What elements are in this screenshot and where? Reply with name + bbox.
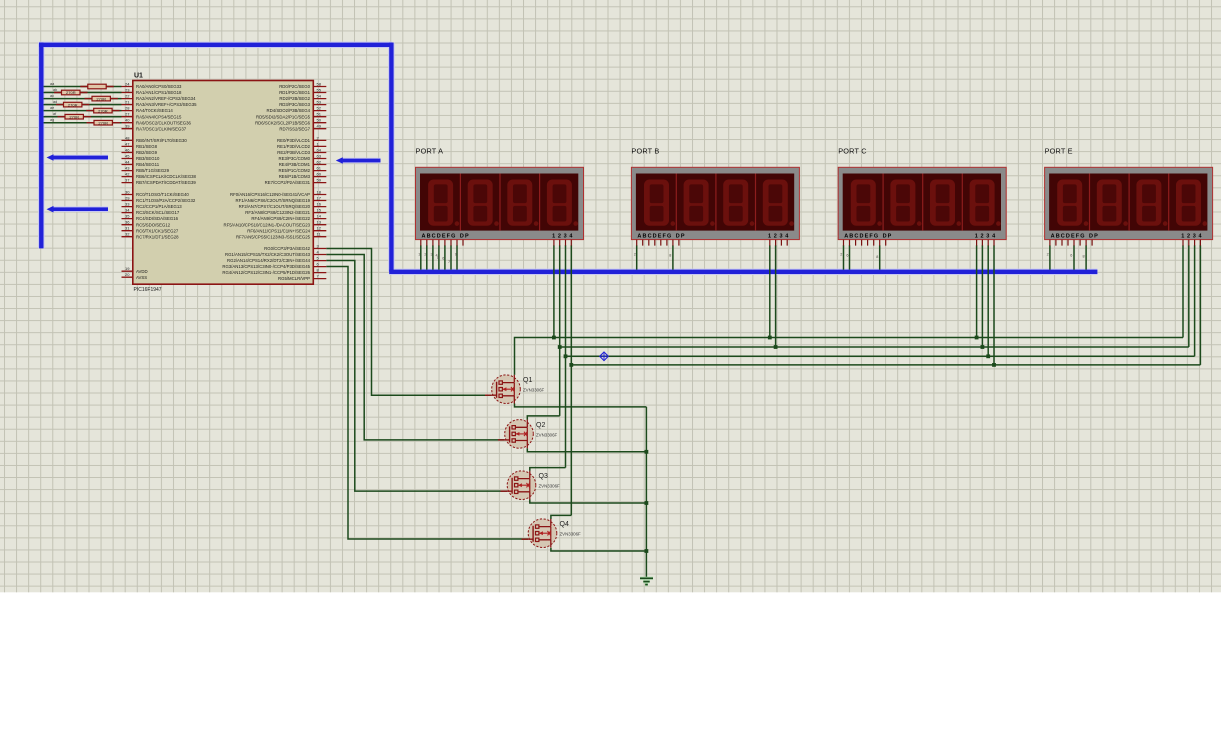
transistor Q3 ZVN3306F (501, 471, 561, 500)
svg-text:RF3/AN8/CPS8/C123IN2-/SEG21: RF3/AN8/CPS8/C123IN2-/SEG21 (245, 210, 310, 215)
svg-text:RE4/P3B/COM1: RE4/P3B/COM1 (279, 162, 311, 167)
transistor Q4 ZVN3306F (522, 519, 582, 548)
svg-text:13: 13 (317, 220, 322, 225)
resistor R7 270R (87, 120, 120, 125)
svg-text:32: 32 (125, 232, 130, 237)
bus entry stub left lower with arrow (47, 206, 109, 213)
svg-text:RD1/P2C/SEG1: RD1/P2C/SEG1 (279, 90, 310, 95)
svg-text:20: 20 (125, 272, 130, 277)
svg-text:RC3/SCK/SCL/SEG17: RC3/SCK/SCL/SEG17 (136, 210, 180, 215)
U1 left pin stubs (122, 87, 133, 278)
net labels aa-ag (50, 82, 57, 122)
junction dot PORT A digit3 / rail3 (564, 354, 568, 358)
svg-text:21: 21 (125, 100, 130, 105)
svg-text:RF6/AN11/CPS11/C1IN+/SEG24: RF6/AN11/CPS11/C1IN+/SEG24 (247, 228, 310, 233)
svg-text:ZVN3306F: ZVN3306F (560, 532, 582, 537)
junction dot PORT B digit1 / rail1 (768, 336, 772, 340)
svg-text:RA1/AN1/CPS1/SEG18: RA1/AN1/CPS1/SEG18 (136, 90, 182, 95)
svg-text:RC7/RX1/DT1/SEG28: RC7/RX1/DT1/SEG28 (136, 234, 179, 239)
svg-text:270R: 270R (66, 90, 76, 95)
svg-text:RA6/OSC2/CLKOUT/SEG36: RA6/OSC2/CLKOUT/SEG36 (136, 120, 192, 125)
svg-text:PORT A: PORT A (416, 147, 444, 156)
svg-text:64: 64 (317, 148, 322, 153)
svg-text:33: 33 (125, 202, 130, 207)
svg-text:6: 6 (1070, 254, 1072, 258)
svg-text:31: 31 (125, 226, 130, 231)
svg-text:59: 59 (317, 178, 322, 183)
svg-text:3: 3 (431, 253, 433, 257)
svg-text:RG1/AN15/CPS15/TX2/CK2/C3OUT/S: RG1/AN15/CPS15/TX2/CK2/C3OUT/SEG43 (225, 252, 311, 257)
rail 3: digit-3 rail (566, 355, 1195, 357)
svg-text:RC6/TX1/CK1/SEG27: RC6/TX1/CK1/SEG27 (136, 228, 179, 233)
wire ad: bus to R4 to pin RA3 (44, 104, 122, 106)
svg-text:29: 29 (125, 196, 130, 201)
svg-text:7: 7 (448, 260, 450, 264)
wire ab: bus to R2 to pin RA1 (44, 92, 122, 94)
svg-text:RF2/AN7/CPS7/C1OUT/SRQ/SEG20: RF2/AN7/CPS7/C1OUT/SRQ/SEG20 (239, 204, 311, 209)
svg-text:8: 8 (876, 255, 878, 259)
svg-text:39: 39 (125, 124, 130, 129)
svg-text:18: 18 (317, 190, 322, 195)
svg-text:U1: U1 (134, 73, 143, 80)
wire Q4 source to ground rail (551, 548, 647, 551)
svg-text:52: 52 (317, 106, 322, 111)
svg-text:45: 45 (125, 154, 130, 159)
svg-text:6: 6 (442, 257, 444, 261)
display PORT C 7SEG-MPX4 (838, 147, 1006, 246)
junction dot PORT C digit1 / rail1 (975, 336, 979, 340)
wire PORT C digit 4 down to rail 4 (993, 245, 995, 365)
wire PORT A segment F to bus (450, 245, 452, 269)
wire PORT A segment A to bus (420, 245, 422, 269)
svg-text:1: 1 (418, 253, 420, 257)
svg-text:RC5/SDO/SEG12: RC5/SDO/SEG12 (136, 222, 171, 227)
junction dot PORT A digit4 / rail4 (569, 363, 573, 367)
display PORT B 7SEG-MPX4 (631, 147, 799, 246)
junction dot PORT C digit3 / rail3 (986, 354, 990, 358)
svg-text:40: 40 (125, 118, 130, 123)
svg-text:RF0/AN16/CPS16/C12IN0-/SEG41/V: RF0/AN16/CPS16/C12IN0-/SEG41/VCAP (230, 192, 310, 197)
node marker (blue diamond) on rail 3 (600, 352, 609, 361)
svg-text:58: 58 (317, 82, 322, 87)
svg-text:ag: ag (50, 118, 54, 122)
display PORT E 7SEG-MPX4 (1045, 147, 1213, 246)
svg-text:14: 14 (317, 214, 322, 219)
U1 right pin numbers (317, 82, 322, 279)
display pin number labels (418, 253, 1084, 264)
svg-text:30: 30 (125, 190, 130, 195)
wire Q3 drain elbow (530, 468, 566, 471)
op-amp U1 PIC16F1947 microcontroller body (133, 73, 313, 294)
wire RG2 pin5 to Q3 gate (326, 261, 507, 492)
svg-text:RC1/T1OSI/P2A/CCP2/SEG32: RC1/T1OSI/P2A/CCP2/SEG32 (136, 198, 196, 203)
svg-text:RC0/T1OSO/T1CKI/SEG40: RC0/T1OSO/T1CKI/SEG40 (136, 192, 189, 197)
wire Q3 source to ground rail (530, 500, 647, 504)
ground (640, 578, 653, 584)
svg-text:8: 8 (1083, 255, 1085, 259)
svg-text:RA3/AN3/VREF+/CPS3/SEG35: RA3/AN3/VREF+/CPS3/SEG35 (136, 102, 197, 107)
svg-text:46: 46 (125, 148, 130, 153)
svg-text:270R: 270R (68, 102, 78, 107)
svg-text:RB5/T1G/SEG29: RB5/T1G/SEG29 (136, 168, 170, 173)
svg-text:270R: 270R (69, 114, 79, 119)
svg-text:RA5/AN4/CPS4/SEG15: RA5/AN4/CPS4/SEG15 (136, 114, 182, 119)
svg-text:63: 63 (317, 154, 322, 159)
svg-text:RD0/P2C/SEG0: RD0/P2C/SEG0 (279, 84, 310, 89)
svg-text:RC2/CCP1/P1A/SEG13: RC2/CCP1/P1A/SEG13 (136, 204, 182, 209)
wire PORT A segment B to bus (426, 245, 428, 269)
bus entry stub right of chip with arrow (336, 157, 381, 164)
svg-text:2: 2 (424, 253, 426, 257)
svg-text:47: 47 (125, 141, 130, 146)
wire af: bus to R6 to pin RA5 (44, 116, 122, 118)
wire PORT A digit 2 down through rail 2 to Q2 drain elbow (559, 245, 561, 416)
svg-text:RF1/AN6/CPS6/C2OUT/SRNQ/SEG19: RF1/AN6/CPS6/C2OUT/SRNQ/SEG19 (235, 198, 310, 203)
bus: top horizontal segment (39, 43, 392, 47)
svg-text:RB0/INT/SRI/FLT0/SEG30: RB0/INT/SRI/FLT0/SEG30 (136, 138, 187, 143)
junction dot PORT C digit4 / rail4 (992, 363, 996, 367)
wire PORT A segment C to bus (432, 245, 434, 269)
svg-text:55: 55 (317, 88, 322, 93)
svg-text:50: 50 (317, 118, 322, 123)
wire PORT E segment G to bus (1085, 245, 1087, 269)
wire PORT B digit 1 down to rail 1 (769, 245, 771, 337)
svg-text:24: 24 (125, 82, 130, 87)
junction dot Q4 source / ground rail (645, 549, 649, 553)
svg-text:RG3/AN13/CPS13/C3IN0-/CCP4/P3D: RG3/AN13/CPS13/C3IN0-/CCP4/P3D/SEG45 (222, 264, 310, 269)
svg-text:ab: ab (53, 88, 57, 92)
svg-text:RA0/AN0/CPS0/SEG33: RA0/AN0/CPS0/SEG33 (136, 84, 182, 89)
junction dot PORT B digit2 / rail2 (774, 345, 778, 349)
junction dot PORT A digit1 / rail1 (552, 336, 556, 340)
svg-text:34: 34 (125, 208, 130, 213)
svg-text:RE6/P1B/COM3: RE6/P1B/COM3 (279, 174, 311, 179)
svg-text:270R: 270R (98, 108, 108, 113)
svg-text:23: 23 (125, 88, 130, 93)
wire Q2 drain elbow (527, 416, 559, 420)
svg-text:9: 9 (455, 253, 457, 257)
wire PORT B segment G to bus (672, 245, 674, 269)
svg-text:RE5/P1C/COM2: RE5/P1C/COM2 (278, 168, 310, 173)
svg-text:28: 28 (125, 106, 130, 111)
svg-text:RD5/SDI2/SDA2/P1C/SEG5: RD5/SDI2/SDA2/P1C/SEG5 (256, 114, 311, 119)
svg-text:RA4/T0CKI/SEG14: RA4/T0CKI/SEG14 (136, 108, 173, 113)
svg-text:RG0/CCP3/P3A/SEG42: RG0/CCP3/P3A/SEG42 (264, 246, 310, 251)
wire PORT E digit 3 down to rail 3 end (1194, 245, 1196, 356)
svg-text:RE3/P3C/COM0: RE3/P3C/COM0 (278, 156, 310, 161)
wire Q2 source to ground rail (527, 448, 646, 452)
bus: right vertical segment (389, 43, 393, 272)
junction dot Q2 source / ground rail (645, 450, 649, 454)
junction dot PORT A digit2 / rail2 (558, 345, 562, 349)
svg-text:ad: ad (53, 100, 57, 104)
svg-text:48: 48 (125, 135, 130, 140)
svg-text:RG5/MCLR/VPP: RG5/MCLR/VPP (278, 276, 310, 281)
wire PORT A segment G to bus (456, 245, 458, 269)
wire Q4 drain elbow (551, 515, 571, 519)
wire ground rail vertical (645, 407, 647, 578)
svg-text:RB6/ICSPCLK/ICDCLK/SEG38: RB6/ICSPCLK/ICDCLK/SEG38 (136, 174, 197, 179)
svg-text:2: 2 (1047, 253, 1049, 257)
svg-text:22: 22 (125, 94, 130, 99)
svg-text:ac: ac (50, 94, 54, 98)
svg-text:44: 44 (125, 160, 130, 165)
svg-text:35: 35 (125, 214, 130, 219)
svg-text:RB3/SEG10: RB3/SEG10 (136, 156, 160, 161)
bus: bottom horizontal segment to displays (389, 270, 1097, 274)
wire PORT A segment E to bus (444, 245, 446, 269)
svg-text:2: 2 (840, 253, 842, 257)
svg-text:53: 53 (317, 100, 322, 105)
svg-text:49: 49 (317, 124, 322, 129)
svg-text:19: 19 (125, 266, 130, 271)
svg-text:RB2/SEG9: RB2/SEG9 (136, 150, 158, 155)
svg-text:ZVN3306F: ZVN3306F (536, 432, 558, 437)
wire PORT A digit 1 down to rail 1 (553, 245, 555, 337)
bus: left vertical segment (39, 43, 43, 249)
U1 left pin numbers (125, 82, 130, 278)
wire PORT C segment B to bus (849, 245, 851, 269)
junction dot Q3 source / ground rail (645, 501, 649, 505)
svg-text:Q3: Q3 (539, 473, 548, 480)
rail 2: digit-2 rail (560, 346, 1189, 348)
bus entry stub left upper with arrow (47, 154, 109, 161)
svg-text:PORT B: PORT B (631, 147, 659, 156)
svg-text:PORT C: PORT C (838, 147, 867, 156)
svg-text:Q1: Q1 (523, 377, 532, 384)
U1 right pin labels (222, 84, 310, 281)
wire PORT A digit 4 down through rail 4 to Q4 drain elbow (570, 245, 572, 515)
wire PORT C segment A to bus (843, 245, 845, 269)
junction dot PORT C digit2 / rail2 (981, 345, 985, 349)
svg-text:RD7/SS2/SEG7: RD7/SS2/SEG7 (279, 126, 310, 131)
svg-text:62: 62 (317, 160, 322, 165)
grid background (0, 0, 1221, 592)
resistor R2 270R (54, 90, 88, 95)
svg-text:43: 43 (125, 166, 130, 171)
svg-text:8: 8 (669, 254, 671, 258)
svg-text:36: 36 (125, 220, 130, 225)
svg-text:RG2/AN14/CPS14/RX2/DT2/C3IN+/S: RG2/AN14/CPS14/RX2/DT2/C3IN+/SEG44 (227, 258, 311, 263)
display PORT A 7SEG-MPX4 (416, 147, 584, 246)
svg-text:15: 15 (317, 208, 322, 213)
rail 1: Q1 drain riser to PORT E digit 1 (515, 338, 1184, 375)
resistor R6 270R (58, 114, 91, 119)
svg-text:51: 51 (317, 112, 322, 117)
svg-text:ae: ae (50, 106, 54, 110)
svg-text:54: 54 (317, 94, 322, 99)
svg-text:RE0/P3D/VLCD1: RE0/P3D/VLCD1 (277, 138, 311, 143)
svg-text:RD4/SDO2/P3B/SEG4: RD4/SDO2/P3B/SEG4 (267, 108, 311, 113)
wire PORT B digit 2 down to rail 2 (775, 245, 777, 347)
wire PORT A segment D to bus (438, 245, 440, 269)
svg-text:RE2/P3B/VLCD3: RE2/P3B/VLCD3 (277, 150, 310, 155)
U1 right pin stubs (313, 87, 326, 279)
svg-text:RB1/SEG8: RB1/SEG8 (136, 144, 158, 149)
wire PORT A digit 3 down through rail 3 to Q3 drain elbow (565, 245, 567, 467)
svg-text:6: 6 (846, 254, 848, 258)
svg-text:17: 17 (317, 196, 322, 201)
wire RG3 pin6 to Q4 gate (326, 267, 528, 540)
wire PORT E digit 2 down to rail 2 end (1188, 245, 1190, 347)
svg-text:2: 2 (634, 253, 636, 257)
resistor R4 270R (56, 102, 89, 107)
svg-text:60: 60 (317, 172, 322, 177)
wire ac: bus to R3 to pin RA2 (44, 98, 122, 100)
svg-text:Q2: Q2 (536, 422, 545, 429)
svg-text:AVSS: AVSS (136, 275, 147, 280)
U1 left pin labels (136, 84, 197, 280)
svg-text:PIC16F1947: PIC16F1947 (134, 287, 162, 293)
wire PORT C digit 1 down to rail 1 (976, 245, 978, 337)
wire PORT B segment A to bus (636, 245, 638, 269)
svg-text:27: 27 (125, 112, 130, 117)
svg-text:Q4: Q4 (560, 521, 569, 528)
rail 4: digit-4 rail (571, 364, 1200, 366)
wire RG1 pin4 to Q2 gate (326, 255, 504, 440)
svg-text:RA2/AN2/VREF-/CPS2/SEG34: RA2/AN2/VREF-/CPS2/SEG34 (136, 96, 196, 101)
svg-text:42: 42 (125, 172, 130, 177)
svg-text:RG4/AN12/CPS12/C3IN1-/CCP5/P1D: RG4/AN12/CPS12/C3IN1-/CCP5/P1D/SEG26 (222, 270, 310, 275)
wire PORT E segment E to bus (1073, 245, 1075, 269)
svg-text:RF5/AN10/CPS10/C12IN1-/DACOUT/: RF5/AN10/CPS10/C12IN1-/DACOUT/SEG23 (224, 222, 311, 227)
svg-text:AVDD: AVDD (136, 269, 148, 274)
resistor R1 270R (80, 84, 113, 89)
svg-text:RD6/SCK2/SCL2/P1B/SEG6: RD6/SCK2/SCL2/P1B/SEG6 (255, 120, 311, 125)
wire PORT C digit 2 down to rail 2 (981, 245, 983, 347)
svg-text:RC4/SDI/SDA/SEG16: RC4/SDI/SDA/SEG16 (136, 216, 179, 221)
resistor R3 270R (85, 96, 118, 101)
wire PORT C segment G to bus (879, 245, 881, 269)
wire PORT E digit 4 down to rail 4 end (1199, 245, 1201, 365)
svg-text:37: 37 (125, 178, 130, 183)
wire PORT E segment A to bus (1049, 245, 1051, 269)
svg-text:RF7/AN5/CPS5/C123IN3-/SS1/SEG2: RF7/AN5/CPS5/C123IN3-/SS1/SEG25 (236, 234, 311, 239)
svg-text:12: 12 (317, 226, 322, 231)
wire PORT C digit 3 down to rail 3 (987, 245, 989, 356)
resistor R5 270R (86, 108, 119, 113)
svg-text:270R: 270R (96, 96, 106, 101)
wire aa: bus to R1 to pin RA0 (44, 86, 122, 88)
wire ag: bus to R7 to pin RA6 (44, 122, 122, 124)
svg-text:5: 5 (437, 256, 439, 260)
svg-text:61: 61 (317, 166, 322, 171)
bus halo (light edge around blue bus) (39, 43, 1097, 272)
transistor Q2 ZVN3306F (498, 420, 558, 449)
svg-text:RA7/OSC1/CLKIN/SEG37: RA7/OSC1/CLKIN/SEG37 (136, 126, 187, 131)
svg-text:RB7/ICSPDAT/ICDDAT/SEG39: RB7/ICSPDAT/ICDDAT/SEG39 (136, 180, 196, 185)
wire ae: bus to R5 to pin RA4 (44, 110, 122, 112)
wire PORT E digit 1 down to rail 1 end (1182, 245, 1184, 337)
wire Q1 source to ground rail (515, 404, 647, 407)
svg-text:16: 16 (317, 202, 322, 207)
wire RG0 pin3 to Q1 gate (326, 249, 491, 396)
svg-text:PORT E: PORT E (1045, 147, 1073, 156)
svg-text:RE1/P3D/VLCD2: RE1/P3D/VLCD2 (277, 144, 311, 149)
svg-text:RD2/P2B/SEG2: RD2/P2B/SEG2 (279, 96, 310, 101)
svg-text:RB4/SEG11: RB4/SEG11 (136, 162, 160, 167)
svg-text:RF4/AN9/CPS9/C2IN+/SEG22: RF4/AN9/CPS9/C2IN+/SEG22 (251, 216, 310, 221)
svg-text:RE7/CCP2/P2A/SEG31: RE7/CCP2/P2A/SEG31 (265, 180, 311, 185)
svg-text:270R: 270R (98, 120, 108, 125)
svg-text:ZVN3306F: ZVN3306F (539, 484, 561, 489)
transistor Q1 ZVN3306F (485, 375, 545, 404)
svg-text:ZVN3306F: ZVN3306F (523, 388, 545, 393)
svg-text:RD3/P3C/SEG3: RD3/P3C/SEG3 (279, 102, 310, 107)
